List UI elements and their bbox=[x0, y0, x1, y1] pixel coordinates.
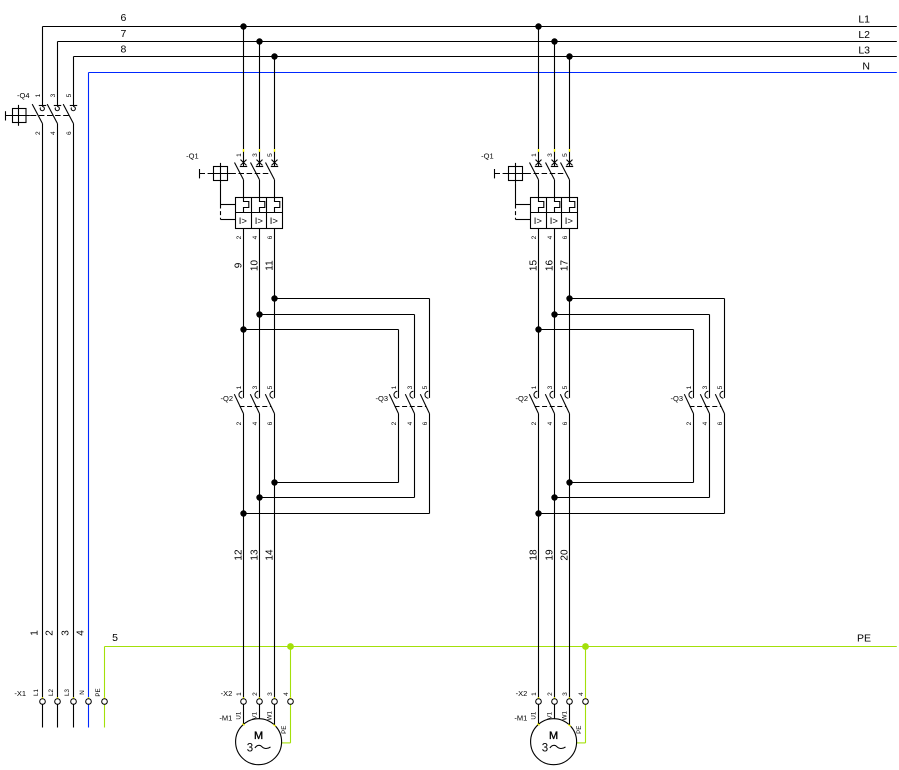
svg-text:N: N bbox=[79, 690, 86, 694]
svg-text:PE: PE bbox=[857, 632, 871, 644]
contactor -Q2 mechanical linkage bbox=[240, 406, 272, 408]
wire 14 bbox=[265, 414, 276, 699]
breaker -Q1 thermal element at x=554 bbox=[555, 198, 560, 213]
svg-text:L3: L3 bbox=[858, 45, 870, 57]
svg-text:6: 6 bbox=[422, 421, 429, 425]
svg-text:10: 10 bbox=[250, 260, 261, 272]
wire from bus to breaker at x=554 bbox=[554, 42, 556, 167]
svg-text:1: 1 bbox=[35, 93, 42, 97]
terminal -X1 connection marker L2 bbox=[57, 697, 59, 699]
svg-text:3: 3 bbox=[407, 385, 414, 389]
wire terminal to motor V1 bbox=[554, 704, 556, 718]
wire PE to motor (green) bbox=[577, 647, 586, 743]
switch -Q4 manual actuator bbox=[6, 105, 31, 126]
svg-text:1: 1 bbox=[531, 385, 538, 389]
wire PE drop (green) bbox=[104, 647, 106, 728]
wire terminal to motor W1 bbox=[569, 704, 571, 725]
terminal -X2 connection marker 3 bbox=[274, 697, 276, 699]
wire L1 bus (net 6) bbox=[43, 26, 897, 28]
contactor -Q3 contact 5-6 bbox=[420, 391, 429, 413]
junction node tap L3 branch bbox=[566, 295, 572, 301]
svg-text:12: 12 bbox=[234, 549, 245, 561]
svg-text:N: N bbox=[862, 61, 870, 73]
breaker -Q1 thermal element at x=274 bbox=[275, 198, 280, 213]
svg-text:20: 20 bbox=[560, 549, 571, 561]
terminal -X2 point 2 bbox=[552, 699, 558, 705]
breaker -Q1 mechanical linkage bbox=[509, 173, 566, 175]
contactor -Q3 contact 1-2 bbox=[389, 391, 398, 413]
terminal -X1 point L1 bbox=[40, 699, 46, 705]
junction node tap L1 branch bbox=[240, 326, 246, 332]
svg-text:3: 3 bbox=[50, 93, 57, 97]
svg-text:1: 1 bbox=[686, 385, 693, 389]
terminal -X1 point PE bbox=[102, 699, 108, 705]
wire 17 bbox=[560, 229, 571, 398]
svg-text:6: 6 bbox=[562, 421, 569, 425]
svg-text:-Q2: -Q2 bbox=[220, 394, 233, 403]
terminal -X2 connection marker 1 bbox=[243, 697, 245, 699]
svg-text:U1: U1 bbox=[531, 711, 538, 719]
svg-text:3: 3 bbox=[702, 385, 709, 389]
wire 2 (L2 feeder) bbox=[57, 42, 59, 728]
switch -Q4 pole contact 5-6 bbox=[63, 104, 77, 124]
terminal -X1 point L3 bbox=[71, 699, 77, 705]
svg-text:I>: I> bbox=[270, 216, 279, 227]
terminal -X2 point 2 bbox=[257, 699, 263, 705]
wire tap to -Q3 pole 1 bbox=[539, 330, 694, 398]
svg-text:1: 1 bbox=[236, 692, 243, 696]
svg-text:-Q3: -Q3 bbox=[670, 394, 683, 403]
terminal -X2 connection marker 4 bbox=[290, 697, 292, 699]
breaker -Q1 trip unit box bbox=[531, 198, 578, 229]
wire -Q3 pole 3 return to L2 branch bbox=[555, 414, 710, 498]
svg-text:13: 13 bbox=[250, 549, 261, 561]
svg-text:4: 4 bbox=[578, 692, 585, 696]
svg-text:5: 5 bbox=[717, 385, 724, 389]
breaker -Q1 manual actuator bbox=[495, 163, 526, 184]
svg-text:2: 2 bbox=[35, 131, 42, 135]
svg-text:5: 5 bbox=[422, 385, 429, 389]
svg-text:PE: PE bbox=[95, 688, 102, 696]
wire 18 bbox=[529, 414, 540, 699]
svg-text:W1: W1 bbox=[267, 711, 274, 721]
wire PE bus (net 5, green) bbox=[105, 646, 897, 648]
interruption point marker at x=570 bbox=[569, 149, 571, 152]
svg-text:-Q1: -Q1 bbox=[186, 151, 199, 160]
junction node on L2 at x=554 bbox=[551, 38, 557, 44]
svg-text:7: 7 bbox=[120, 28, 126, 40]
wire L3 bus (net 8) bbox=[74, 56, 897, 58]
svg-text:6: 6 bbox=[562, 235, 569, 239]
wire from bus to breaker at x=274 bbox=[274, 57, 276, 167]
svg-text:PE: PE bbox=[281, 726, 288, 734]
contactor -Q2 contact 5-6 bbox=[265, 391, 274, 413]
svg-text:1: 1 bbox=[30, 630, 41, 636]
wire -Q3 pole 5 return to L1 branch bbox=[539, 414, 725, 514]
contactor -Q3 mechanical linkage bbox=[690, 406, 722, 408]
junction node return L3 bbox=[566, 479, 572, 485]
svg-text:4: 4 bbox=[76, 630, 87, 636]
wire -Q3 pole 1 return to L3 branch bbox=[275, 414, 399, 483]
svg-text:18: 18 bbox=[529, 549, 540, 561]
svg-text:5: 5 bbox=[562, 153, 569, 157]
wire tap to -Q3 pole 3 bbox=[260, 315, 415, 398]
svg-text:-X2: -X2 bbox=[516, 689, 528, 698]
wire from bus to breaker at x=260 bbox=[259, 42, 261, 167]
junction node tap L1 branch bbox=[535, 326, 541, 332]
wire 20 bbox=[560, 414, 571, 699]
wire 10 bbox=[250, 229, 261, 398]
contactor -Q2 mechanical linkage bbox=[535, 406, 567, 408]
svg-text:3: 3 bbox=[547, 385, 554, 389]
wire tap to -Q3 pole 3 bbox=[555, 315, 710, 398]
wire from bus to breaker at x=538 bbox=[538, 27, 540, 167]
svg-text:4: 4 bbox=[252, 235, 259, 239]
svg-text:I>: I> bbox=[565, 216, 574, 227]
terminal -X1 point L2 bbox=[55, 699, 61, 705]
wire 12 bbox=[234, 414, 245, 699]
contactor -Q3 contact 3-4 bbox=[700, 391, 709, 413]
breaker -Q1 pole contact 3-4 bbox=[251, 160, 264, 198]
svg-text:5: 5 bbox=[112, 632, 118, 644]
svg-text:8: 8 bbox=[120, 44, 126, 56]
breaker -Q1 thermal element at x=260 bbox=[260, 198, 265, 213]
svg-text:3: 3 bbox=[61, 630, 72, 636]
junction node return L2 bbox=[551, 494, 557, 500]
svg-text:4: 4 bbox=[702, 421, 709, 425]
svg-text:3: 3 bbox=[252, 153, 259, 157]
svg-text:3: 3 bbox=[547, 153, 554, 157]
svg-text:2: 2 bbox=[531, 235, 538, 239]
svg-text:5: 5 bbox=[267, 153, 274, 157]
breaker -Q1 thermal element at x=570 bbox=[570, 198, 575, 213]
svg-text:6: 6 bbox=[120, 12, 126, 24]
wire 19 bbox=[545, 414, 556, 699]
motor -M1 connection point markers bbox=[537, 724, 539, 726]
svg-text:9: 9 bbox=[234, 262, 245, 268]
contactor -Q2 contact 3-4 bbox=[250, 391, 259, 413]
junction node PE tap (green) bbox=[287, 643, 294, 650]
svg-text:L2: L2 bbox=[858, 29, 870, 41]
svg-text:I>: I> bbox=[239, 216, 248, 227]
svg-text:5: 5 bbox=[267, 385, 274, 389]
wire 3 (L3 feeder) bbox=[73, 57, 75, 728]
terminal -X1 point N bbox=[86, 699, 92, 705]
wire terminal to motor U1 bbox=[243, 704, 245, 724]
svg-text:4: 4 bbox=[283, 692, 290, 696]
svg-text:4: 4 bbox=[547, 235, 554, 239]
svg-text:17: 17 bbox=[560, 260, 571, 272]
motor -M1 symbol bbox=[531, 719, 577, 765]
contactor -Q2 contact 1-2 bbox=[529, 391, 538, 413]
svg-text:-Q3: -Q3 bbox=[375, 394, 388, 403]
svg-text:4: 4 bbox=[407, 421, 414, 425]
svg-text:3: 3 bbox=[562, 692, 569, 696]
svg-text:3: 3 bbox=[542, 742, 548, 754]
svg-text:I>: I> bbox=[550, 216, 559, 227]
svg-text:-M1: -M1 bbox=[219, 713, 232, 722]
svg-text:2: 2 bbox=[547, 692, 554, 696]
breaker -Q1 pole contact 1-2 bbox=[530, 160, 543, 198]
svg-text:I>: I> bbox=[534, 216, 543, 227]
terminal -X2 point 1 bbox=[536, 699, 542, 705]
breaker -Q1 manual actuator bbox=[200, 163, 231, 184]
wire tap to -Q3 pole 5 bbox=[570, 299, 725, 398]
svg-text:6: 6 bbox=[267, 421, 274, 425]
terminal -X1 connection marker L3 bbox=[73, 697, 75, 699]
svg-text:U1: U1 bbox=[236, 711, 243, 719]
junction node tap L2 branch bbox=[256, 311, 262, 317]
wire -Q3 pole 3 return to L2 branch bbox=[260, 414, 415, 498]
wire terminal to motor W1 bbox=[274, 704, 276, 725]
svg-text:1: 1 bbox=[236, 153, 243, 157]
motor -M1 connection point markers bbox=[242, 724, 244, 726]
junction node on L1 at x=244 bbox=[240, 23, 246, 29]
svg-text:2: 2 bbox=[686, 421, 693, 425]
svg-text:2: 2 bbox=[45, 630, 56, 636]
breaker -Q1 thermal element at x=244 bbox=[244, 198, 249, 213]
svg-text:3: 3 bbox=[252, 385, 259, 389]
svg-text:2: 2 bbox=[236, 235, 243, 239]
contactor -Q3 contact 1-2 bbox=[684, 391, 693, 413]
contactor -Q2 contact 1-2 bbox=[234, 391, 243, 413]
svg-text:L3: L3 bbox=[64, 689, 71, 696]
terminal -X2 point 4 bbox=[288, 699, 294, 705]
contactor -Q3 contact 3-4 bbox=[405, 391, 414, 413]
terminal -X2 point 1 bbox=[241, 699, 247, 705]
terminal -X2 connection marker 4 bbox=[585, 697, 587, 699]
wire N bus (blue) bbox=[89, 72, 897, 74]
svg-text:-Q2: -Q2 bbox=[515, 394, 528, 403]
wire -Q3 pole 1 return to L3 branch bbox=[570, 414, 694, 483]
wire tap to -Q3 pole 1 bbox=[244, 330, 399, 398]
svg-text:1: 1 bbox=[531, 692, 538, 696]
junction node tap L3 branch bbox=[271, 295, 277, 301]
terminal -X2 connection marker 3 bbox=[569, 697, 571, 699]
junction node return L1 bbox=[535, 510, 541, 516]
svg-text:3: 3 bbox=[267, 692, 274, 696]
svg-text:I>: I> bbox=[255, 216, 264, 227]
wire -Q3 pole 5 return to L1 branch bbox=[244, 414, 430, 514]
wire tap to -Q3 pole 5 bbox=[275, 299, 430, 398]
wire 1 (L1 feeder) bbox=[42, 27, 44, 728]
svg-text:14: 14 bbox=[265, 549, 276, 561]
terminal -X2 point 4 bbox=[583, 699, 589, 705]
terminal -X2 point 3 bbox=[272, 699, 278, 705]
wire PE to motor (green) bbox=[282, 647, 291, 743]
breaker -Q1 thermal element at x=538 bbox=[539, 198, 544, 213]
wire terminal to motor U1 bbox=[538, 704, 540, 724]
svg-text:-Q4: -Q4 bbox=[17, 91, 30, 100]
svg-text:-X1: -X1 bbox=[14, 689, 26, 698]
terminal -X2 connection marker 1 bbox=[538, 697, 540, 699]
svg-text:-M1: -M1 bbox=[514, 713, 527, 722]
contactor -Q3 contact 5-6 bbox=[715, 391, 724, 413]
wire terminal to motor V1 bbox=[259, 704, 261, 718]
switch -Q4 pole contact 3-4 bbox=[47, 104, 61, 124]
contactor -Q2 contact 5-6 bbox=[560, 391, 569, 413]
wire 11 bbox=[265, 229, 276, 398]
junction node on L2 at x=260 bbox=[256, 38, 262, 44]
terminal -X2 connection marker 2 bbox=[554, 697, 556, 699]
wire L2 bus (net 7) bbox=[58, 41, 897, 43]
svg-text:5: 5 bbox=[66, 93, 73, 97]
junction node PE tap (green) bbox=[582, 643, 589, 650]
svg-text:16: 16 bbox=[545, 260, 556, 272]
svg-text:1: 1 bbox=[391, 385, 398, 389]
svg-text:5: 5 bbox=[562, 385, 569, 389]
motor -M1 symbol bbox=[236, 719, 282, 765]
breaker -Q1 pole contact 5-6 bbox=[266, 160, 279, 198]
wire from bus to breaker at x=244 bbox=[243, 27, 245, 167]
wire 13 bbox=[250, 414, 261, 699]
svg-text:W1: W1 bbox=[562, 711, 569, 721]
svg-text:6: 6 bbox=[717, 421, 724, 425]
wire from bus to breaker at x=570 bbox=[569, 57, 571, 167]
switch -Q4 pole contact 1-2 bbox=[32, 104, 46, 124]
wire 4 (N feeder, blue) bbox=[88, 73, 90, 728]
wire 9 bbox=[234, 229, 245, 398]
switch -Q4 mechanical linkage bbox=[31, 115, 70, 117]
svg-text:4: 4 bbox=[50, 131, 57, 135]
svg-text:2: 2 bbox=[236, 421, 243, 425]
svg-text:15: 15 bbox=[529, 260, 540, 272]
breaker -Q1 trip lever links bbox=[221, 184, 236, 220]
svg-text:6: 6 bbox=[66, 131, 73, 135]
svg-text:-X2: -X2 bbox=[221, 689, 233, 698]
svg-text:2: 2 bbox=[252, 692, 259, 696]
svg-text:1: 1 bbox=[236, 385, 243, 389]
junction node on L1 at x=538 bbox=[535, 23, 541, 29]
svg-text:M: M bbox=[549, 730, 558, 742]
svg-text:6: 6 bbox=[267, 235, 274, 239]
svg-text:4: 4 bbox=[547, 421, 554, 425]
svg-text:L1: L1 bbox=[33, 689, 40, 696]
breaker -Q1 mechanical linkage bbox=[214, 173, 271, 175]
terminal -X2 connection marker 2 bbox=[259, 697, 261, 699]
junction node tap L2 branch bbox=[551, 311, 557, 317]
junction node return L1 bbox=[240, 510, 246, 516]
junction node on L3 at x=570 bbox=[566, 53, 572, 59]
breaker -Q1 pole contact 1-2 bbox=[235, 160, 248, 198]
interruption point marker at x=274 bbox=[274, 149, 276, 152]
breaker -Q1 pole contact 5-6 bbox=[561, 160, 574, 198]
contactor -Q2 contact 3-4 bbox=[545, 391, 554, 413]
svg-text:11: 11 bbox=[265, 260, 276, 271]
svg-text:2: 2 bbox=[391, 421, 398, 425]
breaker -Q1 trip lever links bbox=[516, 184, 531, 220]
junction node return L2 bbox=[256, 494, 262, 500]
terminal -X1 connection marker L1 bbox=[42, 697, 44, 699]
interruption point marker at x=260 bbox=[259, 149, 261, 152]
interruption point marker at x=244 bbox=[243, 149, 245, 152]
svg-text:19: 19 bbox=[545, 549, 556, 561]
svg-text:-Q1: -Q1 bbox=[481, 151, 494, 160]
svg-text:PE: PE bbox=[576, 726, 583, 734]
svg-text:M: M bbox=[254, 730, 263, 742]
interruption point marker at x=554 bbox=[554, 149, 556, 152]
junction node on L3 at x=274 bbox=[271, 53, 277, 59]
svg-text:1: 1 bbox=[531, 153, 538, 157]
breaker -Q1 trip unit box bbox=[236, 198, 283, 229]
breaker -Q1 pole contact 3-4 bbox=[546, 160, 559, 198]
svg-text:L1: L1 bbox=[858, 13, 870, 25]
wire 16 bbox=[545, 229, 556, 398]
svg-text:2: 2 bbox=[531, 421, 538, 425]
interruption point marker at x=538 bbox=[538, 149, 540, 152]
svg-text:3: 3 bbox=[247, 742, 253, 754]
terminal -X1 connection marker PE bbox=[104, 697, 106, 699]
wire 15 bbox=[529, 229, 540, 398]
contactor -Q3 mechanical linkage bbox=[395, 406, 427, 408]
junction node return L3 bbox=[271, 479, 277, 485]
svg-text:4: 4 bbox=[252, 421, 259, 425]
svg-text:L2: L2 bbox=[48, 689, 55, 696]
terminal -X2 point 3 bbox=[567, 699, 573, 705]
terminal -X1 connection marker N bbox=[88, 697, 90, 699]
